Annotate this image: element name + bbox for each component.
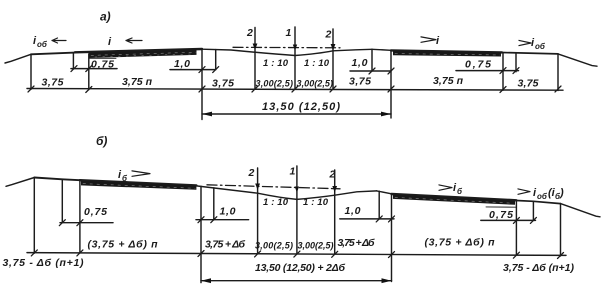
svg-text:): ) [559, 187, 564, 199]
svg-text:3,75: 3,75 [212, 78, 234, 90]
svg-text:0,75: 0,75 [465, 59, 491, 71]
svg-text:2: 2 [325, 29, 332, 41]
svg-text:об: об [535, 42, 546, 51]
svg-text:1 : 10: 1 : 10 [263, 58, 289, 69]
svg-text:0,75: 0,75 [489, 209, 513, 221]
svg-text:3,75 + Δб: 3,75 + Δб [205, 239, 245, 251]
svg-text:б): б) [96, 134, 107, 148]
svg-text:3,00(2,5): 3,00(2,5) [255, 241, 293, 251]
svg-text:1 : 10: 1 : 10 [263, 197, 289, 208]
svg-text:2: 2 [329, 169, 336, 181]
svg-text:2: 2 [246, 27, 253, 39]
svg-text:3,00(2,5): 3,00(2,5) [256, 79, 294, 89]
svg-text:3,75: 3,75 [42, 77, 64, 89]
svg-text:об: об [537, 192, 548, 201]
svg-text:1,0: 1,0 [174, 58, 190, 70]
svg-text:1,0: 1,0 [345, 205, 361, 217]
svg-text:(3,75 + Δб) п: (3,75 + Δб) п [425, 237, 496, 249]
svg-text:0,75: 0,75 [84, 206, 107, 218]
svg-text:0,75: 0,75 [91, 59, 114, 71]
svg-text:1 : 10: 1 : 10 [303, 197, 329, 208]
svg-text:(3,75 + Δб) п: (3,75 + Δб) п [88, 239, 159, 251]
svg-text:3,75: 3,75 [518, 78, 539, 90]
svg-text:1: 1 [290, 166, 296, 178]
svg-text:i: i [436, 35, 440, 47]
svg-text:3,75 - Δб (п+1): 3,75 - Δб (п+1) [503, 262, 575, 274]
svg-text:13,50 (12,50) + 2Δб: 13,50 (12,50) + 2Δб [255, 262, 345, 274]
svg-text:1,0: 1,0 [352, 57, 368, 69]
svg-text:3,75 п: 3,75 п [433, 75, 464, 87]
svg-text:i: i [108, 36, 112, 48]
svg-text:1,0: 1,0 [220, 206, 236, 218]
svg-text:3,75 п: 3,75 п [122, 76, 153, 88]
svg-text:13,50 (12,50): 13,50 (12,50) [262, 101, 340, 113]
svg-text:3,75 - Δб (п+1): 3,75 - Δб (п+1) [3, 257, 85, 269]
svg-text:2: 2 [248, 167, 255, 179]
svg-text:3,00(2,5): 3,00(2,5) [297, 79, 334, 89]
svg-text:б: б [457, 187, 463, 196]
svg-text:1 : 10: 1 : 10 [304, 58, 330, 69]
svg-text:3,75: 3,75 [349, 76, 371, 88]
svg-text:1: 1 [286, 27, 292, 39]
svg-text:а): а) [100, 10, 111, 24]
svg-text:3,00(2,5): 3,00(2,5) [298, 241, 334, 251]
svg-text:об: об [37, 40, 48, 49]
svg-text:3,75 + Δб: 3,75 + Δб [338, 237, 375, 249]
